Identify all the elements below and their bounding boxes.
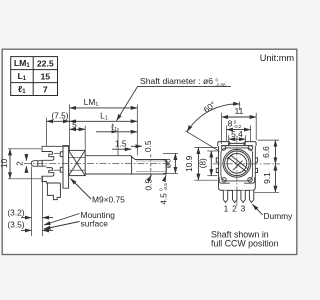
extension line body rear [46,118,48,146]
front bottom pins [223,191,254,203]
side tabs right [255,158,257,173]
plate terminal tab upper [60,152,63,157]
svg-text:4.5: 4.5 [159,193,169,205]
extension line mounting surface [69,104,71,150]
dim 4.5 flat [158,183,168,205]
lower body block [47,183,60,200]
drawing frame [2,49,297,254]
60 deg radial line [186,131,220,152]
bushing circles [223,149,251,177]
svg-text:(7.5): (7.5) [51,111,68,121]
side tabs left [216,158,218,173]
plate terminal tab lower [60,167,63,172]
svg-text:Unit:mm: Unit:mm [260,53,295,63]
svg-text:Dummy: Dummy [264,211,294,221]
svg-text:10.9: 10.9 [184,155,194,172]
ear holes [221,146,226,151]
inner cover outline [221,148,253,181]
dim l1 [96,131,137,133]
svg-text:15: 15 [40,71,50,81]
dim 10.9 [197,148,199,181]
60 deg top tick [239,102,241,111]
dim L1 [70,120,138,122]
svg-text:5: 5 [72,120,77,130]
svg-text:full CCW position: full CCW position [211,238,279,248]
svg-text:6.6: 6.6 [261,146,271,158]
svg-text:22.5: 22.5 [37,58,54,68]
svg-text:(3.5): (3.5) [7,220,24,230]
svg-text:1: 1 [224,203,229,213]
bushing with thread cross [69,150,86,175]
60 deg arc [187,104,240,132]
svg-text:ø6: ø6 [162,158,172,168]
top tab [229,143,246,145]
bottom ears [219,177,230,183]
dim 5 [70,128,86,130]
svg-text:2: 2 [232,203,237,213]
svg-text:Shaft diameter : ø6: Shaft diameter : ø6 [140,76,213,86]
left pin [31,161,42,167]
dim o6 shaft [163,152,178,154]
svg-text:M9×0.75: M9×0.75 [92,194,125,204]
shaft diameter leader [117,87,138,121]
svg-text:(3.2): (3.2) [7,208,24,218]
mounting plate [63,146,69,189]
svg-text:8: 8 [228,119,233,129]
svg-text:5.4: 5.4 [231,129,243,139]
dim 9.1 [274,164,276,192]
dummy label [252,204,262,215]
top ears [218,142,230,146]
shaft circle with flat and slot [227,154,248,174]
extension line shaft end dims [136,104,138,155]
svg-text:-0.5: -0.5 [163,183,168,191]
pin 3 [241,191,245,203]
svg-text:2: 2 [14,161,24,166]
extension line flat start [117,128,119,155]
pin 2 [233,191,237,203]
side view centerline [24,163,170,165]
shaft [85,156,166,174]
pin 1 [223,191,227,203]
svg-text:surface: surface [81,219,109,229]
slot bottom line [136,160,166,162]
dim 2 left [25,154,27,161]
svg-text:1.5: 1.5 [115,139,127,149]
body outline [31,146,68,200]
svg-text:7: 7 [43,84,48,94]
dim 6.6 [274,140,276,164]
front view horizontal centerline [213,163,280,165]
svg-text:11: 11 [235,106,244,116]
shaft slot hidden line [150,154,152,176]
svg-text:0.5: 0.5 [143,140,153,152]
pin 4 dummy [249,191,253,203]
main body [219,146,256,190]
svg-text:(8): (8) [197,158,207,168]
svg-text:3: 3 [241,203,246,213]
pin extension lines bottom [30,167,32,237]
terminal link lines [54,152,61,154]
dim (7.5) [47,120,70,122]
front body [216,142,257,191]
dim LM1 [70,107,138,109]
svg-text:0.5: 0.5 [143,179,153,191]
upper terminal lug [46,152,53,161]
extension line bushing end [84,126,86,150]
lower terminal lug [46,168,53,177]
svg-text:10: 10 [0,159,9,169]
front view vertical centerline [236,136,238,208]
svg-text:9.1: 9.1 [262,172,272,184]
parameter table [11,57,58,96]
dim 10 left [9,149,11,179]
dim (8) [210,151,212,176]
